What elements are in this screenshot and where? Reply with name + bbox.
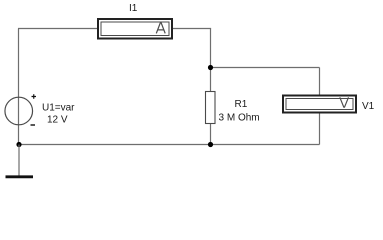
wire vertical ammeter-to-node (210, 29, 212, 68)
voltmeter V1 outer box (283, 96, 356, 113)
voltage source U1 circle (5, 97, 33, 125)
svg-text:12 V: 12 V (47, 115, 68, 126)
ground stem (18, 145, 20, 177)
ground bar (6, 175, 34, 178)
voltmeter V letter (340, 97, 349, 107)
svg-text:R1: R1 (235, 99, 248, 110)
plus polarity mark (32, 94, 37, 98)
node junction dot B (bottom of resistor) (208, 142, 213, 147)
node junction dot C (ground node) (16, 142, 21, 147)
ammeter A letter (156, 23, 165, 34)
ammeter I1 inner box (101, 22, 169, 36)
wire top-left vertical (source branch) (18, 29, 20, 145)
node junction dot A (top of resistor) (208, 65, 213, 70)
wire bottom horizontal (19, 144, 320, 146)
voltmeter V1 inner box (286, 99, 353, 110)
wire voltmeter bottom vertical (319, 113, 321, 145)
svg-text:V1: V1 (362, 101, 375, 112)
wire top horizontal left segment (18, 28, 97, 30)
wire node-to-resistor vertical (210, 68, 212, 92)
wire voltmeter top vertical (319, 68, 321, 96)
wire resistor-to-bottom vertical (210, 124, 212, 145)
minus polarity mark (31, 124, 36, 126)
wire node-to-voltmeter horizontal (211, 67, 320, 69)
svg-text:I1: I1 (129, 3, 138, 14)
resistor R1 body (206, 92, 216, 124)
svg-text:U1=var: U1=var (42, 103, 75, 114)
ammeter I1 outer box (98, 19, 172, 39)
svg-text:3 M Ohm: 3 M Ohm (219, 113, 260, 124)
wire top horizontal right segment (173, 28, 211, 30)
